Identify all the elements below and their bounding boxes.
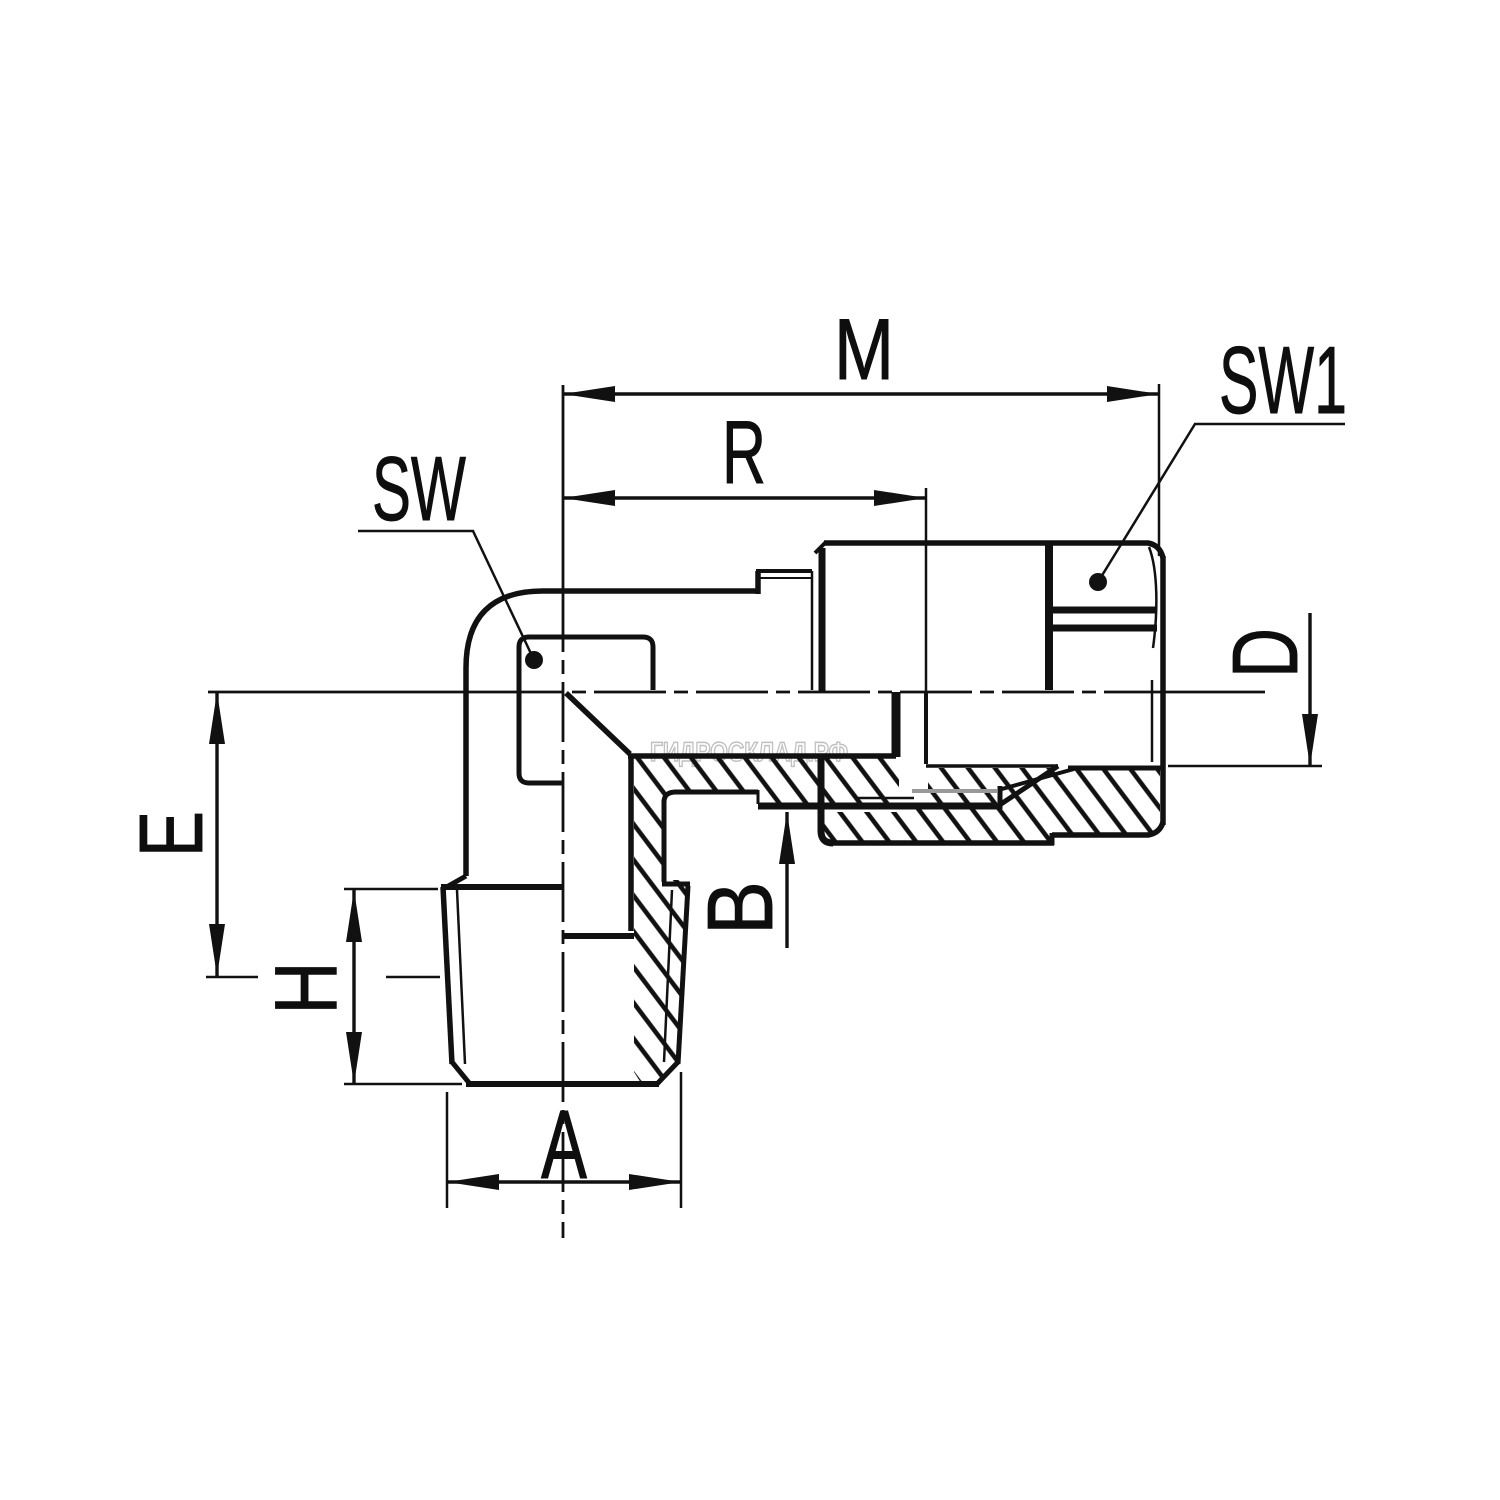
dimension R line	[563, 496, 926, 499]
section: ring cone diagonal	[1002, 769, 1074, 789]
male thread top shoulder line	[441, 884, 563, 890]
section: bore chamfer diagonal at elbow corner	[566, 693, 630, 754]
nut left face upper	[819, 548, 826, 691]
nut body/hex boundary	[1045, 545, 1053, 690]
dimension B arrow shaft	[785, 812, 788, 948]
section: horizontal-leg bottom face	[674, 790, 758, 795]
H bottom arrowhead	[346, 1032, 362, 1084]
hatch: nut lower section	[821, 768, 1160, 843]
nut hex bottom edge	[1052, 822, 1163, 835]
nut bottom step	[1050, 833, 1055, 845]
svg-text:R: R	[722, 402, 766, 502]
M right arrowhead	[1107, 386, 1159, 402]
M extension line right	[1158, 384, 1161, 556]
nut hex lower chamfer thin line	[1151, 680, 1154, 762]
collar top edge	[756, 569, 812, 573]
B arrowhead	[779, 812, 795, 864]
section: thread step at vertical leg	[662, 882, 690, 887]
section: inner corner fillet of L-notch	[664, 792, 676, 802]
A right extension line	[680, 1072, 683, 1208]
horizontal centerline dash-dot middle	[492, 691, 1140, 694]
section: male thread right root thin line	[664, 890, 672, 1062]
section: male thread right edge	[678, 886, 688, 1064]
horizontal centerline solid right extension	[1140, 691, 1265, 694]
H top extension line	[344, 888, 438, 891]
R right arrowhead	[874, 490, 926, 506]
collar top second thin line	[758, 577, 812, 579]
svg-text:M: M	[834, 302, 894, 398]
D arrowhead	[1302, 714, 1318, 766]
D extension line	[1168, 765, 1322, 768]
section: gray tube line	[912, 789, 997, 793]
SW leader line	[358, 531, 534, 660]
section: nut cone face diagonal	[998, 766, 1058, 806]
svg-text:A: A	[541, 1090, 587, 1199]
male thread left root thin line	[457, 890, 465, 1064]
hatch: body horizontal-leg lower wall section	[631, 755, 899, 806]
dimension M line with arrows	[563, 392, 1159, 395]
nut hex flat line 2	[1053, 625, 1157, 632]
nut bottom edge thin wall	[831, 840, 1054, 846]
watermark ГИДРОСКЛАД.РФ	[650, 737, 848, 767]
vertical centerline solid top extension	[562, 385, 565, 592]
section: nipple end thin edge	[924, 692, 928, 764]
dimension D line	[1308, 613, 1311, 766]
hatch: cutting ring wedge section	[928, 768, 1056, 806]
elbow body outer profile: left edge, corner arc, top edge	[466, 591, 758, 876]
A left arrowhead	[447, 1174, 499, 1190]
male thread left bottom chamfer	[452, 1062, 470, 1084]
hatch: body vertical-leg right wall and male thread section	[632, 757, 688, 1083]
E bottom arrowhead	[209, 924, 225, 976]
nut hex right chamfer arc	[1149, 547, 1156, 648]
SW leader dot	[525, 651, 543, 669]
nut lower-left face	[821, 758, 833, 843]
vertical centerline dash-dot lower	[562, 592, 565, 1238]
male thread bottom edge	[466, 1081, 659, 1087]
svg-text:SW: SW	[372, 439, 466, 540]
A left extension line	[446, 1092, 449, 1208]
SW1 leader dot	[1089, 573, 1107, 591]
section: step down to nipple thread	[757, 790, 760, 804]
section: nipple end face	[892, 692, 901, 757]
nut top edge	[824, 543, 1163, 558]
svg-text:D: D	[1213, 628, 1317, 678]
SW hex flat rounded rectangle	[519, 637, 653, 783]
SW1 leader line	[1098, 424, 1345, 582]
section: vertical bore wall	[628, 754, 634, 931]
section: vertical-leg right outer face	[662, 800, 667, 882]
dimension E line	[215, 692, 218, 976]
E bottom extension segment 2	[386, 976, 440, 979]
H bottom extension line	[344, 1083, 462, 1086]
R extension line right	[925, 488, 928, 692]
section: nipple thread outer line	[758, 803, 997, 810]
section: male thread right bottom chamfer	[657, 1062, 678, 1084]
section: thin thread root line on nipple	[858, 797, 914, 800]
nut top-left chamfer	[815, 542, 826, 553]
nut right face	[1160, 556, 1166, 825]
A right arrowhead	[629, 1174, 681, 1190]
section: tube hole line right part	[1068, 766, 1161, 771]
svg-text:B: B	[688, 881, 792, 935]
dimension H line	[352, 890, 355, 1084]
svg-text:H: H	[256, 962, 355, 1015]
section: tube hole line left part	[926, 764, 1058, 768]
collar right face thin line	[811, 571, 814, 690]
R left arrowhead	[563, 490, 615, 506]
svg-text:SW1: SW1	[1219, 327, 1347, 434]
section: ring left face	[998, 786, 1003, 809]
E bottom extension segment 1	[206, 976, 258, 979]
section: horizontal bore wall	[628, 753, 896, 759]
male thread left edge external	[443, 887, 452, 1064]
E top arrowhead	[209, 692, 225, 744]
H top arrowhead	[346, 890, 362, 942]
section: vertical bore bottom	[562, 933, 634, 939]
nut hex flat line 1	[1053, 607, 1157, 614]
svg-text:E: E	[122, 811, 222, 857]
elbow body chamfer to male thread	[443, 876, 466, 889]
dimension A line	[447, 1180, 681, 1183]
horizontal centerline solid left extension	[208, 691, 492, 694]
M left arrowhead	[563, 386, 615, 402]
collar step up at x=758	[755, 571, 761, 594]
